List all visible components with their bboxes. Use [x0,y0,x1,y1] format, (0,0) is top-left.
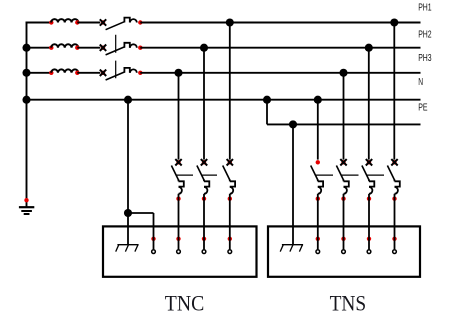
TNC pole x=204 contact x-mark [202,160,206,164]
inductor L PH3 left red dot [49,71,53,75]
wire PH3 bus-to-inductor [26,72,52,74]
TNS pole x=369 overcurrent release square bump [369,181,374,186]
TNS pole x=343.5 pole output wire [343,194,345,250]
TNS pole x=369 pole stub [368,180,370,182]
svg-text:TNS: TNS [330,291,367,316]
TNS pole x=343.5 pole output red dot [341,197,345,201]
TNC pole x=229.8 terminal circle [228,250,232,254]
breaker QF1 PH3 breaker output red dot [138,71,142,75]
TNC pole x=229.8 pole stub [229,180,231,182]
TNS pole x=317.8 pole output wire [317,194,319,250]
wire PH1 bus-to-inductor [26,22,52,24]
wire N line [27,99,421,101]
TNC N terminal red dot [151,237,155,241]
TNS pole x=343.5 switch blade [336,166,343,181]
TNC pole x=229.8 thermal release hump [230,187,233,194]
TNS pole x=394.5 terminal circle [393,250,397,254]
TNS pole x=343.5 pole stub [343,180,345,182]
wire PH2 drop to TNC pole [203,48,205,160]
TNS pole x=343.5 thermal release hump [344,187,347,194]
TNS pole x=343.5 terminal red dot [341,237,345,241]
TNS distribution box [268,226,420,276]
TNC pole x=229.8 pole output wire [229,194,231,250]
svg-text:PH2: PH2 [418,29,432,40]
junction bus-PH3 [22,69,30,77]
TNS pole x=394.5 overcurrent release square bump [395,181,400,186]
TNS pole x=394.5 terminal red dot [392,237,396,241]
TNC pole x=178.5 contact x-mark [176,160,180,164]
junction TNC PEN node [124,209,132,217]
TNS pole x=394.5 thermal release hump [395,187,398,194]
TNS pole x=317.8 pole output red dot [316,197,320,201]
wire TNC N terminal drop [153,213,155,249]
TNS pole x=317.8 terminal circle [316,250,320,254]
svg-text:PH3: PH3 [418,53,432,64]
breaker QF1 PH2 breaker output red dot [138,46,142,50]
TNC pole x=178.5 switch blade [171,166,178,181]
TNC pole x=204 overcurrent release square bump [204,181,209,186]
ground earth symbol (left bus) [24,198,28,202]
TNS pole x=369 contact x-mark [367,160,371,164]
TNS pole x=343.5 terminal circle [342,250,346,254]
TNC pole x=229.8 terminal red dot [228,237,232,241]
junction PH2-TNC tap [200,44,208,52]
breaker QF1 PH1 overcurrent release square bump [124,18,129,23]
breaker QF1 PH3 contact x-mark [101,71,105,75]
TNS pole x=317.8 contact red dot [316,160,320,164]
TNC pole x=229.8 overcurrent release square bump [230,181,235,186]
wire PH3 inductor-to-breaker [77,72,100,74]
TNC distribution box [103,226,257,276]
junction PH2-TNS tap [365,44,373,52]
junction PH1-TNC tap [226,18,234,26]
wire PH1 breaker-to-right-end [140,22,420,24]
inductor L PH1 [51,19,78,22]
wire PH2 inductor-to-breaker [77,47,100,49]
TNC pole x=204 thermal release hump [204,187,207,194]
breaker QF1 PH1 breaker output red dot [138,20,142,24]
ground rake symbol TNS box [282,244,303,246]
breaker QF1 PH2 overcurrent release square bump [124,43,129,48]
breaker QF1 mechanical tie (dashed) [115,35,117,79]
junction PE-TNS tap [289,120,297,128]
TNS pole x=394.5 pole output red dot [392,197,396,201]
junction N-TNC tap [124,96,132,104]
wire N drop to TNC ground [127,100,129,245]
wire PH2 bus-to-inductor [26,47,52,49]
TNC pole x=178.5 thermal release hump [179,187,182,194]
TNS pole x=317.8 overcurrent release square bump [318,181,323,186]
TNC N terminal circle [152,250,156,254]
junction bus-PH2 [22,44,30,52]
wire PH1 inductor-to-breaker [77,22,100,24]
svg-text:PE: PE [418,102,427,113]
breaker QF1 PH1 thermal release hump [130,19,137,22]
inductor L PH1 right red dot [75,20,79,24]
TNC pole x=178.5 pole output red dot [176,197,180,201]
TNC pole x=178.5 terminal circle [177,250,181,254]
TNS pole x=394.5 pole stub [394,180,396,182]
inductor L PH2 left red dot [49,46,53,50]
svg-text:TNC: TNC [165,291,205,316]
TNS pole x=369 pole output wire [368,194,370,250]
TNC pole x=178.5 pole stub [178,180,180,182]
breaker QF1 PH3 overcurrent release square bump [124,68,129,73]
junction bus-N [22,96,30,104]
TNC pole x=178.5 terminal red dot [176,237,180,241]
TNS pole x=369 switch blade [362,166,369,181]
TNC pole x=178.5 overcurrent release square bump [179,181,184,186]
wire PH1 drop to TNC pole [229,23,231,160]
wire PE line [267,123,421,125]
wire PE drop to TNS ground [292,124,294,244]
TNC pole x=204 pole output red dot [202,197,206,201]
TNC pole x=204 pole output wire [203,194,205,250]
TNS pole x=394.5 switch blade [387,166,394,181]
wire PH3 drop to TNS pole [343,73,345,160]
breaker QF1 PH3 switch blade [106,72,125,80]
TNS pole x=369 terminal circle [367,250,371,254]
TNC pole mechanical tie (dashed) [176,174,217,176]
wire PE link N-to-PE [266,100,268,125]
TNC pole x=204 pole stub [203,180,205,182]
TNS pole x=369 terminal red dot [367,237,371,241]
wire left supply bus [26,22,28,207]
TNC pole x=178.5 pole output wire [178,194,180,250]
TNS pole x=394.5 pole output wire [394,194,396,250]
TNS pole x=317.8 thermal release hump [318,187,321,194]
breaker QF1 PH2 thermal release hump [130,44,137,47]
inductor L PH3 right red dot [75,71,79,75]
inductor L PH2 right red dot [75,46,79,50]
inductor L PH2 [51,44,78,47]
TNS pole x=343.5 overcurrent release square bump [344,181,349,186]
breaker QF1 PH2 switch blade [106,47,125,55]
wire PH3 breaker-to-right-end [140,72,420,74]
TNS pole x=343.5 contact x-mark [341,160,345,164]
inductor L PH1 left red dot [49,20,53,24]
junction PH1-TNS tap [390,18,398,26]
TNC pole x=229.8 pole output red dot [228,197,232,201]
junction PH3-TNS tap [339,69,347,77]
svg-text:PH1: PH1 [418,2,432,13]
TNC pole x=229.8 switch blade [223,166,230,181]
breaker QF1 PH2 contact x-mark [101,46,105,50]
junction N-PE link [263,96,271,104]
breaker QF1 PH3 thermal release hump [130,69,137,72]
TNS pole mechanical tie (dashed) [316,174,384,176]
breaker QF1 PH1 switch blade [106,22,125,30]
TNC pole x=204 terminal red dot [202,237,206,241]
wire PH1 drop to TNS pole [393,23,395,160]
wire PH2 breaker-to-right-end [140,47,420,49]
TNC pole x=229.8 contact x-mark [228,160,232,164]
TNC pole x=204 terminal circle [202,250,206,254]
inductor L PH3 [51,69,78,72]
wire TNC PEN jumper [128,212,154,214]
wire N drop to TNS pole [317,100,319,160]
wire PH2 drop to TNS pole [368,48,370,160]
wire PH3 drop to TNC pole [178,73,180,160]
svg-text:N: N [418,77,423,88]
breaker QF1 PH1 contact x-mark [101,20,105,24]
TNS pole x=317.8 terminal red dot [316,237,320,241]
junction N-TNS tap [314,96,322,104]
TNC pole x=204 switch blade [197,166,204,181]
TNS pole x=369 thermal release hump [369,187,372,194]
TNS pole x=317.8 switch blade [311,166,318,181]
TNS pole x=369 pole output red dot [367,197,371,201]
ground rake symbol TNC box [117,244,138,246]
TNS pole x=317.8 pole stub [317,180,319,182]
junction PH3-TNC tap [174,69,182,77]
TNS pole x=394.5 contact x-mark [392,160,396,164]
